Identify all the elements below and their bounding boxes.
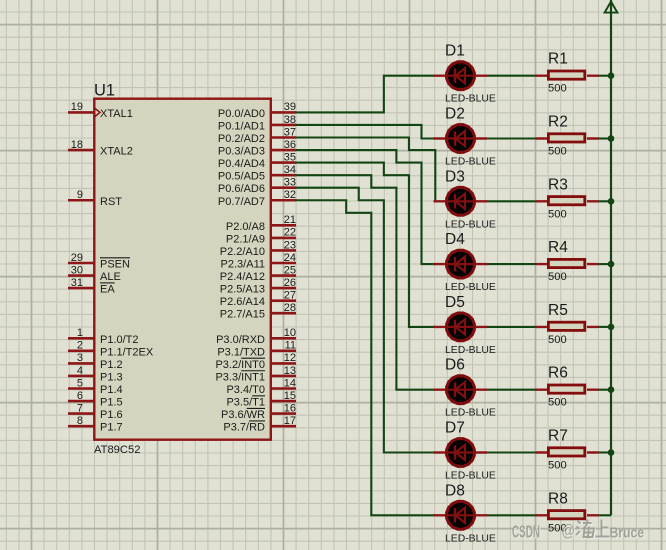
value label LED-BLUE bbox=[445, 408, 496, 419]
svg-text:LED-BLUE: LED-BLUE bbox=[445, 94, 496, 105]
pin name P1.1/T2EX bbox=[100, 346, 154, 358]
wire P0.2/AD2 pin 37 to LED D3 bbox=[295, 138, 435, 202]
reference designator D8 bbox=[445, 482, 465, 499]
svg-text:P2.6/A14: P2.6/A14 bbox=[220, 296, 265, 308]
svg-text:5: 5 bbox=[77, 377, 83, 389]
pin name EA bbox=[100, 283, 115, 296]
pin name P2.2/A10 bbox=[220, 246, 265, 258]
svg-text:37: 37 bbox=[284, 126, 296, 138]
value label 500 bbox=[548, 334, 567, 346]
pin 17 P3.7/RD stub bbox=[271, 425, 296, 428]
svg-text:9: 9 bbox=[77, 189, 83, 201]
svg-text:14: 14 bbox=[284, 377, 296, 389]
wire LED D8 anode to resistor R8 bbox=[486, 514, 536, 516]
pin number 29 bbox=[71, 252, 83, 264]
LED D1 bbox=[434, 60, 488, 91]
pin 33 P0.6/AD6 stub bbox=[271, 186, 296, 189]
wire resistor R6 to power rail bbox=[598, 389, 611, 391]
pin number 1 bbox=[77, 327, 83, 339]
svg-text:CSDN: CSDN bbox=[512, 521, 540, 541]
pin 19 XTAL1 stub bbox=[68, 111, 94, 114]
value label LED-BLUE bbox=[445, 157, 496, 168]
svg-text:18: 18 bbox=[71, 139, 83, 151]
svg-text:8: 8 bbox=[77, 415, 83, 427]
pin name P1.2 bbox=[100, 359, 123, 371]
pin name P3.0/RXD bbox=[216, 334, 265, 346]
reference designator R7 bbox=[548, 428, 568, 445]
wire resistor R4 to power rail bbox=[598, 263, 611, 265]
pin 26 P2.5/A13 stub bbox=[271, 287, 296, 290]
svg-text:D7: D7 bbox=[445, 420, 465, 437]
IC U1 AT89C52 body bbox=[94, 99, 270, 440]
svg-text:P1.0/T2: P1.0/T2 bbox=[100, 334, 139, 346]
svg-text:R1: R1 bbox=[548, 51, 568, 68]
pin 37 P0.2/AD2 stub bbox=[271, 136, 296, 139]
reference designator D3 bbox=[445, 168, 465, 185]
svg-text:D4: D4 bbox=[445, 231, 465, 248]
value label LED-BLUE bbox=[445, 94, 496, 105]
wire LED D4 anode to resistor R4 bbox=[486, 263, 536, 265]
svg-text:24: 24 bbox=[284, 252, 296, 264]
svg-text:P2.5/A13: P2.5/A13 bbox=[220, 284, 265, 296]
wire LED D3 anode to resistor R3 bbox=[486, 200, 536, 202]
svg-text:13: 13 bbox=[284, 365, 296, 377]
pin 15 P3.5/T1 stub bbox=[271, 400, 296, 403]
svg-text:R8: R8 bbox=[548, 490, 568, 507]
pin name P1.0/T2 bbox=[100, 334, 139, 346]
value label 500 bbox=[548, 208, 567, 220]
wire LED D5 anode to resistor R5 bbox=[486, 326, 536, 328]
pin number 15 bbox=[284, 390, 296, 402]
svg-text:23: 23 bbox=[284, 239, 296, 251]
svg-text:R5: R5 bbox=[548, 302, 568, 319]
svg-text:P0.7/AD7: P0.7/AD7 bbox=[218, 196, 265, 208]
pin name P3.7/RD bbox=[223, 421, 265, 434]
svg-text:LED-BLUE: LED-BLUE bbox=[445, 471, 496, 482]
svg-text:D8: D8 bbox=[445, 482, 465, 499]
pin name P3.6/WR bbox=[221, 408, 265, 421]
svg-text:P3.1/TXD: P3.1/TXD bbox=[217, 346, 265, 358]
pin name P1.4 bbox=[100, 384, 123, 396]
svg-text:30: 30 bbox=[71, 264, 83, 276]
pin 27 P2.6/A14 stub bbox=[271, 299, 296, 302]
pin name P2.5/A13 bbox=[220, 284, 265, 296]
svg-text:19: 19 bbox=[71, 101, 83, 113]
LED D7 bbox=[434, 437, 488, 468]
svg-text:500: 500 bbox=[548, 397, 567, 409]
pin name P3.1/TXD bbox=[217, 346, 265, 358]
pin number 39 bbox=[284, 101, 296, 113]
pin 24 P2.3/A11 stub bbox=[271, 262, 296, 265]
resistor R2 bbox=[536, 134, 599, 142]
pin 12 P3.2/INT0 stub bbox=[271, 362, 296, 365]
LED D6 bbox=[434, 374, 488, 405]
pin name P0.3/AD3 bbox=[218, 146, 265, 158]
value label LED-BLUE bbox=[445, 282, 496, 293]
pin 32 P0.7/AD7 stub bbox=[271, 199, 296, 202]
svg-text:P2.0/A8: P2.0/A8 bbox=[226, 221, 265, 233]
svg-text:P1.7: P1.7 bbox=[100, 422, 123, 434]
svg-text:28: 28 bbox=[284, 302, 296, 314]
value label LED-BLUE bbox=[445, 533, 496, 544]
reference designator R4 bbox=[548, 239, 568, 256]
pin name XTAL1 bbox=[100, 108, 133, 120]
svg-text:2: 2 bbox=[77, 340, 83, 352]
pin number 22 bbox=[284, 227, 296, 239]
svg-text:P3.6/WR: P3.6/WR bbox=[221, 409, 265, 421]
svg-text:11: 11 bbox=[285, 340, 296, 352]
svg-text:P1.5: P1.5 bbox=[100, 397, 123, 409]
reference designator R8 bbox=[548, 490, 568, 507]
watermark CSDN @haishang Bruce bbox=[512, 520, 645, 543]
pin number 9 bbox=[77, 189, 83, 201]
reference designator R5 bbox=[548, 302, 568, 319]
pin number 2 bbox=[77, 340, 83, 352]
pin 3 P1.2 stub bbox=[68, 362, 94, 365]
reference designator D5 bbox=[445, 294, 465, 311]
resistor R6 bbox=[536, 385, 599, 393]
pin name P2.7/A15 bbox=[220, 309, 265, 321]
svg-text:XTAL2: XTAL2 bbox=[100, 146, 133, 158]
value label 500 bbox=[548, 460, 567, 472]
wire P0.3/AD3 pin 36 to LED D4 bbox=[295, 150, 435, 264]
svg-text:27: 27 bbox=[284, 289, 296, 301]
reference designator D6 bbox=[445, 357, 465, 374]
svg-text:RST: RST bbox=[100, 196, 122, 208]
junction dot rail/R6 bbox=[608, 386, 615, 393]
junction dot rail/R5 bbox=[608, 324, 615, 331]
pin 2 P1.1/T2EX stub bbox=[68, 350, 94, 353]
pin 10 P3.0/RXD stub bbox=[271, 337, 296, 340]
pin name P3.2/INT0 bbox=[215, 358, 265, 371]
pin name XTAL2 bbox=[100, 146, 133, 158]
svg-text:Bruce: Bruce bbox=[610, 525, 645, 541]
pin 30 ALE stub bbox=[68, 274, 94, 277]
pin 4 P1.3 stub bbox=[68, 375, 94, 378]
wire P0.1/AD1 pin 38 to LED D2 bbox=[295, 125, 435, 139]
value label LED-BLUE bbox=[445, 471, 496, 482]
svg-text:LED-BLUE: LED-BLUE bbox=[445, 345, 496, 356]
pin number 31 bbox=[71, 277, 83, 289]
svg-text:32: 32 bbox=[284, 189, 296, 201]
pin name P1.6 bbox=[100, 409, 123, 421]
pin name P1.7 bbox=[100, 422, 123, 434]
svg-text:12: 12 bbox=[284, 352, 296, 364]
pin number 12 bbox=[284, 352, 296, 364]
svg-text:3: 3 bbox=[77, 352, 83, 364]
reference designator D7 bbox=[445, 420, 465, 437]
wire LED D6 anode to resistor R6 bbox=[486, 389, 536, 391]
svg-text:D5: D5 bbox=[445, 294, 465, 311]
svg-text:500: 500 bbox=[548, 83, 567, 95]
wire P0.7/AD7 pin 32 to LED D8 bbox=[295, 200, 435, 515]
pin name P1.3 bbox=[100, 371, 123, 383]
wire LED D2 anode to resistor R2 bbox=[486, 137, 536, 139]
pin 11 P3.1/TXD stub bbox=[271, 350, 296, 353]
wire power rail vertical bbox=[610, 0, 612, 515]
pin name P2.4/A12 bbox=[220, 271, 265, 283]
junction dot rail/R4 bbox=[608, 261, 615, 268]
svg-text:P2.2/A10: P2.2/A10 bbox=[220, 246, 265, 258]
wire P0.5/AD5 pin 34 to LED D6 bbox=[295, 175, 435, 390]
LED D5 bbox=[434, 312, 488, 343]
resistor R3 bbox=[536, 197, 599, 205]
pin number 17 bbox=[284, 415, 296, 427]
resistor R5 bbox=[536, 322, 599, 330]
svg-text:P0.0/AD0: P0.0/AD0 bbox=[218, 108, 265, 120]
svg-text:LED-BLUE: LED-BLUE bbox=[445, 533, 496, 544]
pin 22 P2.1/A9 stub bbox=[271, 237, 296, 240]
svg-text:D6: D6 bbox=[445, 357, 465, 374]
pin number 3 bbox=[77, 352, 83, 364]
pin number 36 bbox=[284, 139, 296, 151]
svg-text:EA: EA bbox=[100, 284, 115, 296]
svg-text:21: 21 bbox=[284, 214, 296, 226]
resistor R7 bbox=[536, 448, 599, 456]
svg-text:P1.6: P1.6 bbox=[100, 409, 123, 421]
pin 14 P3.4/T0 stub bbox=[271, 387, 296, 390]
value label 500 bbox=[548, 271, 567, 283]
pin 8 P1.7 stub bbox=[68, 425, 94, 428]
pin number 19 bbox=[71, 101, 83, 113]
value label AT89C52 bbox=[94, 444, 140, 456]
wire resistor R1 to power rail bbox=[598, 75, 611, 77]
wire resistor R2 to power rail bbox=[598, 137, 611, 139]
pin 23 P2.2/A10 stub bbox=[271, 249, 296, 252]
pin number 24 bbox=[284, 252, 296, 264]
svg-text:P1.3: P1.3 bbox=[100, 371, 123, 383]
svg-text:39: 39 bbox=[284, 101, 296, 113]
reference designator D2 bbox=[445, 106, 465, 123]
svg-text:10: 10 bbox=[284, 327, 296, 339]
LED D8 bbox=[434, 500, 488, 531]
pin name P0.1/AD1 bbox=[218, 120, 265, 132]
pin name P0.2/AD2 bbox=[218, 133, 265, 145]
pin number 23 bbox=[284, 239, 296, 251]
reference designator D4 bbox=[445, 231, 465, 248]
resistor R4 bbox=[536, 259, 599, 267]
wire P0.6/AD6 pin 33 to LED D7 bbox=[295, 188, 435, 453]
pin number 7 bbox=[77, 402, 83, 414]
pin 21 P2.0/A8 stub bbox=[271, 224, 296, 227]
svg-text:P0.3/AD3: P0.3/AD3 bbox=[218, 146, 265, 158]
pin number 38 bbox=[284, 114, 296, 126]
svg-text:500: 500 bbox=[548, 208, 567, 220]
wire resistor R5 to power rail bbox=[598, 326, 611, 328]
pin name P2.6/A14 bbox=[220, 296, 265, 308]
pin 39 P0.0/AD0 stub bbox=[271, 111, 296, 114]
svg-text:4: 4 bbox=[77, 365, 83, 377]
pin 9 RST stub bbox=[68, 199, 94, 202]
value label LED-BLUE bbox=[445, 345, 496, 356]
svg-text:31: 31 bbox=[71, 277, 83, 289]
pin number 13 bbox=[284, 365, 296, 377]
pin name P0.5/AD5 bbox=[218, 171, 265, 183]
wire resistor R7 to power rail bbox=[598, 451, 611, 453]
pin name P0.7/AD7 bbox=[218, 196, 265, 208]
svg-text:P1.4: P1.4 bbox=[100, 384, 123, 396]
pin number 18 bbox=[71, 139, 83, 151]
svg-text:35: 35 bbox=[284, 151, 296, 163]
pin name P3.3/INT1 bbox=[215, 371, 265, 384]
pin 35 P0.4/AD4 stub bbox=[271, 161, 296, 164]
svg-text:17: 17 bbox=[284, 415, 296, 427]
reference designator D1 bbox=[445, 43, 465, 60]
pin number 28 bbox=[284, 302, 296, 314]
svg-text:P3.7/RD: P3.7/RD bbox=[223, 422, 265, 434]
svg-text:7: 7 bbox=[77, 402, 83, 414]
pin name P3.4/T0 bbox=[226, 384, 265, 396]
svg-text:P0.6/AD6: P0.6/AD6 bbox=[218, 183, 265, 195]
pin 1 P1.0/T2 stub bbox=[68, 337, 94, 340]
pin name P1.5 bbox=[100, 397, 123, 409]
pin name P2.1/A9 bbox=[226, 233, 265, 245]
svg-text:P3.2/INT0: P3.2/INT0 bbox=[215, 359, 265, 371]
pin 34 P0.5/AD5 stub bbox=[271, 174, 296, 177]
svg-text:LED-BLUE: LED-BLUE bbox=[445, 157, 496, 168]
resistor R1 bbox=[536, 71, 599, 79]
svg-text:P2.7/A15: P2.7/A15 bbox=[220, 309, 265, 321]
svg-text:P1.1/T2EX: P1.1/T2EX bbox=[100, 346, 154, 358]
pin number 14 bbox=[284, 377, 296, 389]
wire resistor R3 to power rail bbox=[598, 200, 611, 202]
svg-text:R6: R6 bbox=[548, 365, 568, 382]
svg-text:1: 1 bbox=[77, 327, 83, 339]
pin 31 EA stub bbox=[68, 287, 94, 290]
value label 500 bbox=[548, 397, 567, 409]
pin 25 P2.4/A12 stub bbox=[271, 274, 296, 277]
svg-text:15: 15 bbox=[284, 390, 296, 402]
svg-text:P2.4/A12: P2.4/A12 bbox=[220, 271, 265, 283]
pin name P0.6/AD6 bbox=[218, 183, 265, 195]
junction dot rail/R1 bbox=[608, 72, 615, 79]
wire LED D7 anode to resistor R7 bbox=[486, 451, 536, 453]
reference designator R1 bbox=[548, 51, 568, 68]
svg-text:XTAL1: XTAL1 bbox=[100, 108, 133, 120]
reference designator R2 bbox=[548, 114, 568, 131]
svg-text:25: 25 bbox=[284, 264, 296, 276]
pin 6 P1.5 stub bbox=[68, 400, 94, 403]
LED D4 bbox=[434, 249, 488, 280]
svg-text:ALE: ALE bbox=[100, 271, 121, 283]
LED D3 bbox=[434, 186, 488, 217]
pin 36 P0.3/AD3 stub bbox=[271, 149, 296, 152]
pin number 34 bbox=[284, 164, 296, 176]
svg-text:36: 36 bbox=[284, 139, 296, 151]
pin number 10 bbox=[284, 327, 296, 339]
svg-text:D1: D1 bbox=[445, 43, 465, 60]
svg-text:500: 500 bbox=[548, 271, 567, 283]
svg-text:PSEN: PSEN bbox=[100, 259, 130, 271]
pin 5 P1.4 stub bbox=[68, 387, 94, 390]
svg-text:P2.1/A9: P2.1/A9 bbox=[226, 233, 265, 245]
value label 500 bbox=[548, 146, 567, 158]
pin number 21 bbox=[284, 214, 296, 226]
svg-text:26: 26 bbox=[284, 277, 296, 289]
junction dot rail/R3 bbox=[608, 198, 615, 205]
pin 16 P3.6/WR stub bbox=[271, 412, 296, 415]
pin number 16 bbox=[284, 402, 296, 414]
svg-text:6: 6 bbox=[77, 390, 83, 402]
svg-text:LED-BLUE: LED-BLUE bbox=[445, 408, 496, 419]
svg-text:P3.5/T1: P3.5/T1 bbox=[226, 397, 265, 409]
pin number 11 bbox=[285, 340, 296, 352]
LED D2 bbox=[434, 123, 488, 154]
svg-text:AT89C52: AT89C52 bbox=[94, 444, 140, 456]
svg-text:500: 500 bbox=[548, 334, 567, 346]
reference designator R6 bbox=[548, 365, 568, 382]
svg-text:LED-BLUE: LED-BLUE bbox=[445, 219, 496, 230]
svg-text:29: 29 bbox=[71, 252, 83, 264]
svg-text:P3.3/INT1: P3.3/INT1 bbox=[215, 371, 265, 383]
pin 7 P1.6 stub bbox=[68, 412, 94, 415]
svg-text:P0.2/AD2: P0.2/AD2 bbox=[218, 133, 265, 145]
svg-text:U1: U1 bbox=[94, 82, 115, 100]
pin number 32 bbox=[284, 189, 296, 201]
XTAL1 clock input chevron bbox=[95, 108, 100, 116]
wire LED D1 anode to resistor R1 bbox=[486, 75, 536, 77]
pin name P0.4/AD4 bbox=[218, 158, 265, 170]
svg-text:P0.5/AD5: P0.5/AD5 bbox=[218, 171, 265, 183]
pin number 8 bbox=[77, 415, 83, 427]
pin number 4 bbox=[77, 365, 83, 377]
pin number 27 bbox=[284, 289, 296, 301]
svg-text:P0.4/AD4: P0.4/AD4 bbox=[218, 158, 265, 170]
pin 38 P0.1/AD1 stub bbox=[271, 124, 296, 127]
value label 500 bbox=[548, 522, 567, 534]
svg-text:R3: R3 bbox=[548, 176, 568, 193]
svg-text:R7: R7 bbox=[548, 428, 568, 445]
svg-text:@: @ bbox=[562, 521, 576, 540]
resistor R8 bbox=[536, 511, 599, 519]
pin number 35 bbox=[284, 151, 296, 163]
svg-text:P3.0/RXD: P3.0/RXD bbox=[216, 334, 265, 346]
wire P0.4/AD4 pin 35 to LED D5 bbox=[295, 163, 435, 327]
svg-text:P3.4/T0: P3.4/T0 bbox=[226, 384, 265, 396]
reference designator R3 bbox=[548, 176, 568, 193]
pin number 6 bbox=[77, 390, 83, 402]
value label LED-BLUE bbox=[445, 219, 496, 230]
svg-text:22: 22 bbox=[284, 227, 296, 239]
pin 13 P3.3/INT1 stub bbox=[271, 375, 296, 378]
svg-text:R4: R4 bbox=[548, 239, 568, 256]
svg-text:P2.3/A11: P2.3/A11 bbox=[221, 259, 265, 271]
svg-text:P0.1/AD1: P0.1/AD1 bbox=[218, 120, 265, 132]
svg-text:38: 38 bbox=[284, 114, 296, 126]
svg-text:500: 500 bbox=[548, 460, 567, 472]
pin 29 PSEN stub bbox=[68, 262, 94, 265]
pin name P0.0/AD0 bbox=[218, 108, 265, 120]
pin name P3.5/T1 bbox=[226, 396, 265, 409]
power symbol (VCC arrow) bbox=[605, 2, 618, 13]
junction dot rail/R7 bbox=[608, 449, 615, 456]
value label 500 bbox=[548, 83, 567, 95]
pin number 26 bbox=[284, 277, 296, 289]
pin number 25 bbox=[284, 264, 296, 276]
pin name P2.0/A8 bbox=[226, 221, 265, 233]
pin number 30 bbox=[71, 264, 83, 276]
svg-text:34: 34 bbox=[284, 164, 296, 176]
reference designator U1 bbox=[94, 82, 115, 100]
svg-text:R2: R2 bbox=[548, 114, 568, 131]
svg-text:P1.2: P1.2 bbox=[100, 359, 123, 371]
pin number 5 bbox=[77, 377, 83, 389]
svg-text:33: 33 bbox=[284, 177, 296, 189]
pin name P2.3/A11 bbox=[221, 259, 265, 271]
pin number 33 bbox=[284, 177, 296, 189]
svg-text:16: 16 bbox=[284, 402, 296, 414]
wire P0.0/AD0 pin 39 to LED D1 bbox=[295, 76, 435, 113]
